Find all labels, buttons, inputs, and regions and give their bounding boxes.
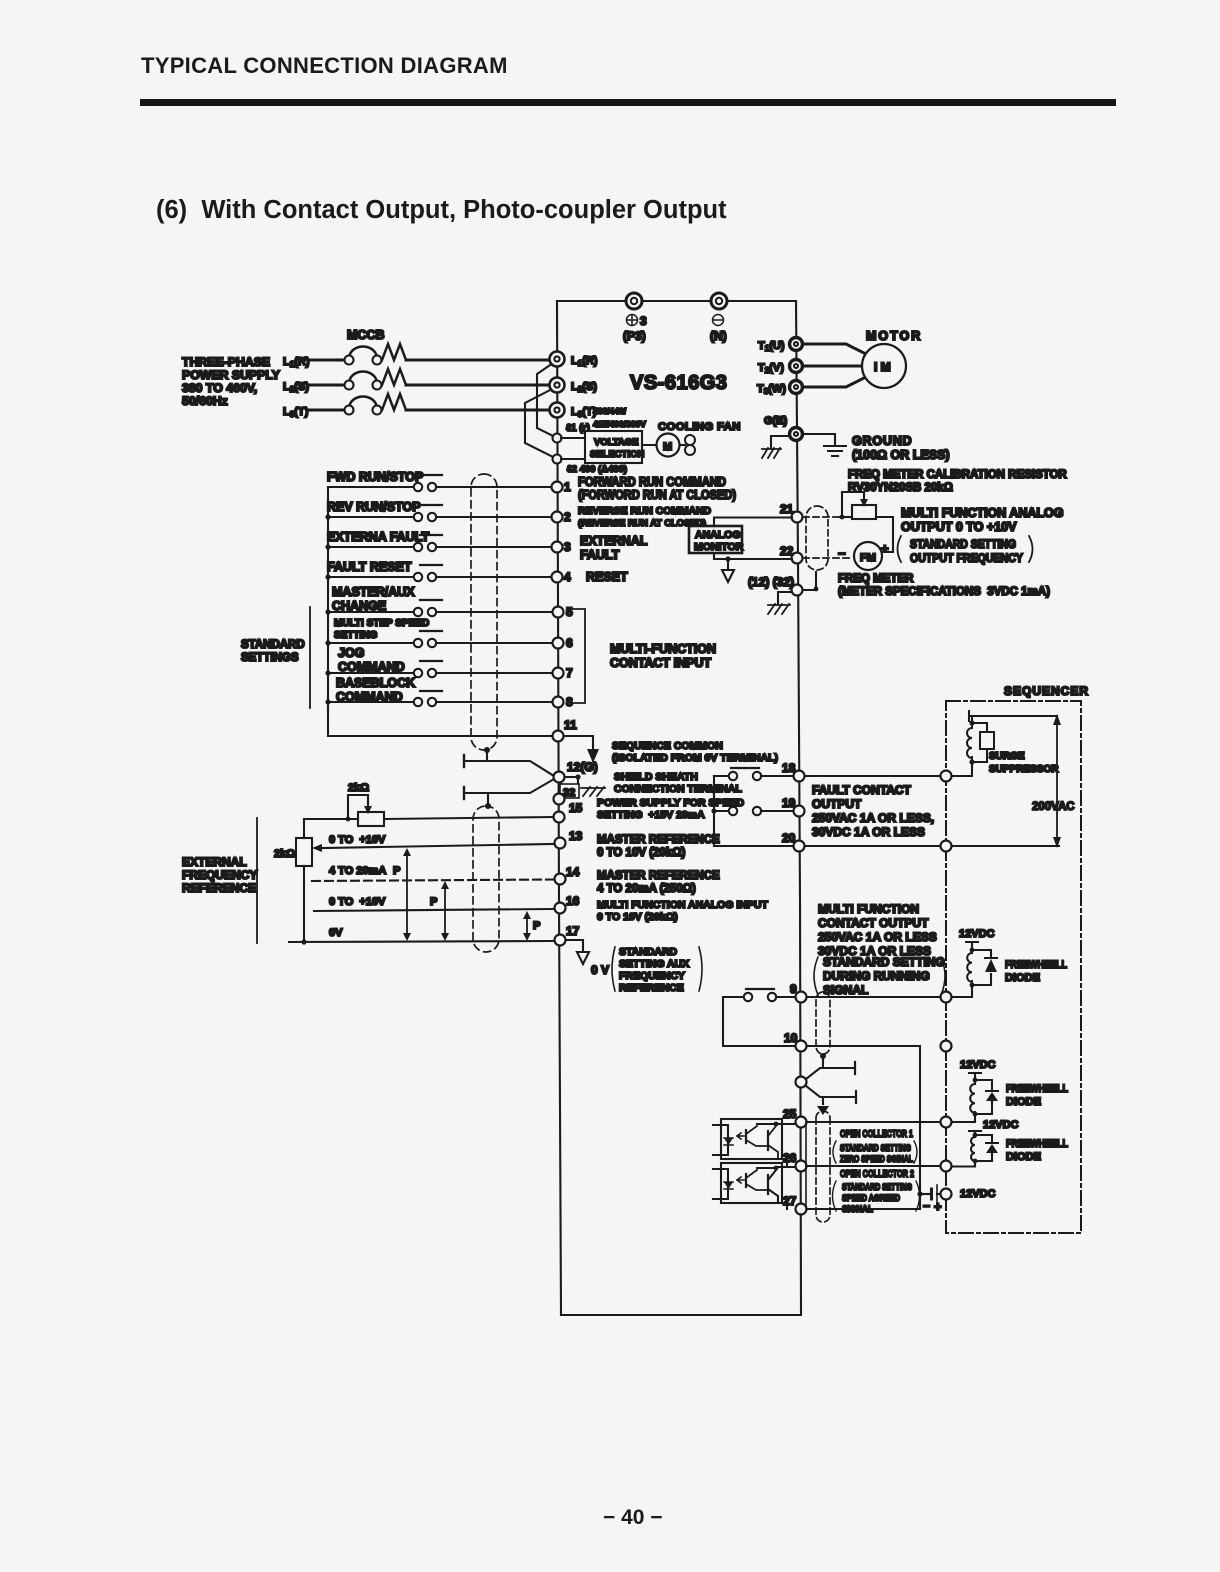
svg-text:COMMAND: COMMAND: [338, 660, 405, 674]
svg-text:2: 2: [564, 510, 571, 524]
svg-text:OUTPUT FREQUENCY: OUTPUT FREQUENCY: [910, 551, 1023, 565]
svg-text:415/400/380V: 415/400/380V: [593, 419, 646, 429]
svg-text:REFERENCE: REFERENCE: [619, 982, 684, 994]
terminal 17: [555, 924, 580, 946]
page number: [603, 1506, 663, 1530]
photocoupler PC2: [713, 1163, 794, 1209]
terminal 9: [790, 982, 807, 1003]
svg-text:DIODE: DIODE: [1006, 1151, 1041, 1163]
wire bus to terminal 11: [328, 735, 552, 737]
twisted pair arrow 14-17: [441, 881, 449, 941]
svg-text:VOLTAGE: VOLTAGE: [594, 437, 639, 448]
svg-text:MCCB: MCCB: [347, 328, 385, 342]
wire 20 to sequencer: [805, 845, 940, 847]
MULTI STEP SPEED contact row: [325, 618, 552, 647]
svg-text:2kΩ: 2kΩ: [274, 848, 295, 860]
terminal 32 boxed: [554, 784, 580, 805]
svg-text:16: 16: [566, 894, 580, 908]
svg-text:250VAC 1A OR LESS,: 250VAC 1A OR LESS,: [812, 811, 934, 825]
svg-text:POWER SUPPLY FOR SPEED: POWER SUPPLY FOR SPEED: [597, 797, 744, 809]
svg-text:SETTINGS: SETTINGS: [241, 652, 299, 664]
svg-text:FWD RUN/STOP: FWD RUN/STOP: [327, 470, 423, 484]
fault contact common vertical: [711, 776, 716, 846]
svg-text:EXTERNAL: EXTERNAL: [580, 534, 648, 548]
battery 12VDC: [917, 1185, 995, 1214]
wire L1 to terminal: [406, 359, 549, 362]
inverter enclosure left edge: [557, 301, 561, 1315]
svg-text:(N): (N): [710, 329, 727, 343]
terminal 15: [554, 801, 583, 823]
svg-text:T1(U): T1(U): [758, 340, 785, 353]
wire 20 into sequencer: [952, 845, 1059, 847]
wire 9 to sequencer: [807, 996, 940, 998]
svg-text:30VDC 1A OR LESS: 30VDC 1A OR LESS: [812, 825, 925, 839]
inverter enclosure top edge: [557, 300, 796, 302]
sequence common arrow: [564, 736, 599, 763]
svg-text:SELECTION: SELECTION: [590, 449, 645, 460]
svg-text:7: 7: [566, 666, 573, 680]
terminal 2: [552, 510, 572, 524]
transfer contact node: [796, 1077, 807, 1088]
svg-text:12VDC: 12VDC: [959, 928, 995, 940]
svg-text:(P3): (P3): [623, 329, 646, 343]
standard settings bracket: [309, 607, 311, 708]
svg-text:11: 11: [564, 718, 577, 732]
MASTER/AUX CHANGE contact row: [325, 585, 552, 616]
terminal 22: [780, 544, 803, 564]
inverter enclosure bottom edge: [561, 1314, 801, 1316]
svg-text:(FORWORD RUN AT CLOSED): (FORWORD RUN AT CLOSED): [578, 488, 736, 502]
svg-text:(REVERSE RUN AT CLOSED): (REVERSE RUN AT CLOSED): [578, 518, 706, 528]
relay coil unit 1: [952, 928, 997, 997]
svg-text:OPEN COLLECTOR 2: OPEN COLLECTOR 2: [840, 1168, 914, 1180]
signal common triangle under monitor: [722, 559, 734, 582]
svg-text:4 TO 20mA (250Ω): 4 TO 20mA (250Ω): [597, 883, 696, 895]
terminal 4: [552, 570, 572, 584]
link 12G to ground: [565, 774, 581, 792]
svg-text:I M: I M: [874, 360, 891, 374]
svg-text:13: 13: [569, 829, 583, 843]
breaker contact L1: [345, 346, 382, 364]
svg-text:SETTING AUX: SETTING AUX: [619, 958, 689, 970]
svg-text:FORWARD RUN COMMAND: FORWARD RUN COMMAND: [578, 475, 726, 489]
breaker contact L3: [345, 396, 382, 414]
svg-text:−: −: [838, 546, 846, 561]
wire L3 from supply: [309, 409, 344, 412]
freq meter calibration potentiometer: [840, 492, 876, 519]
svg-text:ZERO SPEED SGINAL: ZERO SPEED SGINAL: [840, 1154, 913, 1165]
svg-text:FREQUENCY: FREQUENCY: [619, 970, 685, 982]
terminal T3(W): [757, 381, 803, 397]
svg-text:0 TO 10V (20kΩ): 0 TO 10V (20kΩ): [597, 847, 685, 859]
section heading: [156, 196, 727, 225]
svg-text:FM: FM: [860, 552, 876, 564]
terminal 11: [553, 718, 578, 742]
svg-text:(12) (32): (12) (32): [748, 575, 794, 589]
wire L2 from supply: [309, 384, 344, 387]
svg-text:SEQUENCER: SEQUENCER: [1004, 684, 1089, 698]
overcurrent element L2: [382, 369, 406, 385]
transfer contact lower throw: [806, 1086, 856, 1104]
svg-text:0 TO 10V (20kΩ): 0 TO 10V (20kΩ): [597, 911, 678, 923]
terminal 21: [780, 502, 803, 523]
shield oval analog monitor: [806, 506, 828, 570]
master reference 0-10V row: [312, 834, 553, 852]
svg-text:20: 20: [782, 831, 796, 845]
svg-text:CONTACT INPUT: CONTACT INPUT: [610, 656, 712, 670]
voltage tap wire L2 to l2: [525, 387, 556, 458]
svg-text:STANDARD: STANDARD: [619, 946, 678, 958]
svg-text:9: 9: [790, 982, 797, 996]
svg-text:4: 4: [564, 570, 571, 584]
shield oval contact output: [816, 992, 830, 1054]
svg-text:SETTING +15V 20mA: SETTING +15V 20mA: [597, 809, 705, 821]
terminal 27: [783, 1194, 807, 1215]
svg-text:MULTI FUNCTION: MULTI FUNCTION: [818, 902, 919, 916]
svg-text:OUTPUT 0 TO +10V: OUTPUT 0 TO +10V: [901, 520, 1017, 534]
svg-text:(METER SPECIFICATIONS 3VDC 1m: (METER SPECIFICATIONS 3VDC 1mA): [838, 586, 1050, 598]
svg-text:THREE-PHASE: THREE-PHASE: [182, 355, 270, 369]
svg-text:380 TO 460V,: 380 TO 460V,: [182, 381, 257, 395]
terminal 26: [783, 1151, 807, 1172]
svg-text:RESET: RESET: [586, 570, 628, 584]
wire analog monitor to 22: [714, 553, 792, 562]
svg-text:FREQ METER: FREQ METER: [838, 573, 914, 585]
standard setting output frequency note: [898, 536, 1033, 565]
wire L1 from supply: [309, 359, 344, 362]
svg-text:GROUND: GROUND: [852, 434, 912, 448]
sequencer boundary box: [946, 701, 1081, 1233]
svg-text:−: −: [923, 1199, 930, 1213]
twisted pair arrow 16-17: [523, 911, 531, 941]
surge suppressor: [967, 720, 994, 764]
terminal 1: [552, 480, 572, 494]
wire node to surge suppressor: [952, 762, 972, 776]
open collector 2 box: [805, 1166, 807, 1209]
svg-text:JOG: JOG: [338, 646, 364, 660]
relay coil unit 2: [952, 1059, 998, 1122]
svg-text:1: 1: [564, 480, 571, 494]
voltage tap wire L1 to l1: [537, 361, 556, 437]
svg-text:FREEWHEELL: FREEWHEELL: [1005, 959, 1067, 971]
REV RUN/STOP contact row: [325, 500, 551, 521]
svg-text:L1(R): L1(R): [571, 355, 598, 368]
terminal 12(G): [554, 760, 598, 783]
svg-text:+: +: [934, 1199, 942, 1214]
svg-text:L2(S): L2(S): [283, 381, 309, 394]
shield drain dot contact output: [820, 1053, 826, 1059]
svg-text:8: 8: [566, 695, 573, 709]
open collector 2 label: [833, 1168, 920, 1215]
svg-text:MULTI-FUNCTION: MULTI-FUNCTION: [610, 642, 716, 656]
svg-text:M: M: [663, 441, 672, 453]
svg-text:460/440/: 460/440/: [593, 406, 627, 416]
svg-text:REVERSE RUN COMMAND: REVERSE RUN COMMAND: [578, 506, 711, 517]
terminal T1(U): [758, 338, 803, 354]
shield drain dot digital cable: [484, 747, 490, 761]
svg-text:50/60Hz: 50/60Hz: [182, 394, 228, 408]
wire 25 to sequencer: [807, 1121, 940, 1123]
FAULT RESET contact row: [325, 560, 551, 581]
svg-text:MASTER/AUX: MASTER/AUX: [332, 585, 415, 599]
terminal L2(S): [550, 378, 598, 395]
wire contact to 10: [723, 997, 795, 1046]
terminal T2(V): [758, 360, 803, 376]
svg-text:5: 5: [566, 605, 573, 619]
terminal 20: [782, 831, 805, 852]
svg-text:21: 21: [780, 502, 794, 516]
breaker contact L2: [345, 371, 382, 389]
terminal 6: [553, 636, 574, 650]
node sequencer 18: [941, 771, 952, 782]
svg-text:3: 3: [640, 314, 647, 328]
speed setting potentiometer 2k: [346, 795, 384, 826]
svg-text:REV RUN/STOP: REV RUN/STOP: [327, 500, 421, 514]
svg-text:SIGNAL: SIGNAL: [842, 1204, 873, 1215]
svg-text:OPEN COLLECTOR 1: OPEN COLLECTOR 1: [840, 1128, 913, 1140]
ground earth right of G(E): [802, 434, 846, 456]
wire L2 to terminal: [406, 384, 549, 387]
shield oval open collector: [816, 1111, 830, 1222]
svg-text:SUPPRESSOR: SUPPRESSOR: [989, 764, 1059, 775]
svg-text:P: P: [393, 865, 400, 877]
standard setting during running note: [814, 955, 945, 997]
svg-text:SURGE: SURGE: [989, 751, 1025, 762]
terminal 16: [555, 894, 580, 914]
svg-text:SHIELD SHEATH: SHIELD SHEATH: [614, 771, 698, 783]
svg-text:FREQUENCY: FREQUENCY: [182, 868, 257, 882]
svg-text:25: 25: [783, 1107, 797, 1121]
svg-text:P: P: [430, 896, 437, 908]
shield arrow contact output 2: [817, 1106, 829, 1115]
svg-text:FREEWHEELL: FREEWHEELL: [1006, 1083, 1068, 1095]
terminal L3(T): [550, 403, 597, 420]
wire terminal 22 to FM: [803, 557, 853, 559]
svg-text:12VDC: 12VDC: [960, 1188, 996, 1200]
EXTERNAL FAULT contact row: [325, 530, 551, 551]
svg-text:T2(V): T2(V): [758, 362, 784, 375]
svg-text:MULTI FUNCTION ANALOG: MULTI FUNCTION ANALOG: [901, 506, 1063, 520]
node sequencer 10: [941, 1041, 952, 1052]
ground at (12)(32): [768, 592, 792, 614]
svg-text:3: 3: [564, 540, 571, 554]
svg-text:(ISOLATED FROM 0V TERMINAL): (ISOLATED FROM 0V TERMINAL): [612, 752, 778, 764]
svg-text:STANDARD SETTING: STANDARD SETTING: [823, 955, 945, 969]
svg-text:FREEWHEELL: FREEWHEELL: [1006, 1138, 1068, 1150]
motor IM: [862, 344, 906, 388]
svg-text:L2(S): L2(S): [571, 381, 597, 394]
svg-text:STANDARD SETTING: STANDARD SETTING: [840, 1143, 911, 1154]
svg-text:MONITOR: MONITOR: [694, 541, 744, 553]
page title: [141, 53, 508, 79]
node sequencer 20: [941, 841, 952, 852]
0V row: [289, 920, 553, 945]
shield cable oval digital inputs: [471, 474, 497, 750]
node sequencer 26: [941, 1161, 952, 1172]
shield bar upper: [464, 755, 554, 776]
wire T3 to motor: [802, 377, 866, 387]
svg-text:0V: 0V: [329, 927, 343, 939]
wire T1 to motor: [802, 344, 866, 354]
ground at G(E) left: [762, 436, 790, 458]
wire l2 to voltage selection: [561, 458, 585, 460]
overcurrent element L3: [382, 394, 406, 410]
svg-text:STANDARD SETTING: STANDARD SETTING: [910, 537, 1016, 551]
svg-text:FREQ METER CALIBRATION RESISTO: FREQ METER CALIBRATION RESISTOR: [848, 469, 1067, 481]
node l1 (r) tap: [553, 423, 590, 443]
shield drain dot analog cable: [485, 793, 491, 809]
standard setting aux frequency reference note: [612, 946, 702, 994]
terminal 5: [553, 605, 574, 619]
svg-text:2kΩ: 2kΩ: [348, 782, 369, 794]
terminal 14: [555, 865, 580, 885]
wire T2 to motor: [802, 365, 862, 368]
open collector 1 box: [806, 1122, 920, 1166]
svg-text:FAULT RESET: FAULT RESET: [327, 560, 412, 574]
svg-text:SETTING: SETTING: [334, 630, 378, 641]
contact input bus wire: [327, 487, 329, 736]
terminal N: [710, 293, 727, 343]
terminal 10: [784, 1031, 807, 1052]
shield stub to (12)(32): [803, 572, 818, 591]
svg-text:STANDARD SETTING: STANDARD SETTING: [842, 1182, 912, 1193]
svg-text:POWER SUPPLY: POWER SUPPLY: [182, 368, 280, 382]
running signal contact: [723, 989, 795, 1001]
fault NO contact to 19: [714, 807, 793, 815]
svg-text:MOTOR: MOTOR: [866, 329, 922, 343]
overcurrent element L1: [382, 344, 406, 360]
svg-text:G(E): G(E): [764, 415, 788, 427]
wire l1 to voltage selection: [561, 437, 585, 439]
svg-text:ANALOG: ANALOG: [695, 529, 741, 541]
svg-text:EXTERNA FAULT: EXTERNA FAULT: [327, 530, 429, 544]
svg-text:MULTI STEP SPEED: MULTI STEP SPEED: [334, 618, 429, 629]
node sequencer 9: [941, 992, 952, 1003]
svg-text:P: P: [533, 920, 540, 932]
svg-text:T3(W): T3(W): [757, 383, 786, 396]
svg-text:(100Ω OR LESS): (100Ω OR LESS): [852, 448, 950, 462]
svg-text:18: 18: [782, 761, 796, 775]
terminal 19: [782, 796, 805, 817]
svg-text:+: +: [881, 541, 889, 556]
svg-text:17: 17: [566, 924, 580, 938]
svg-text:19: 19: [782, 796, 796, 810]
wire terminal 21 to calibration pot: [803, 516, 840, 518]
svg-text:CONTACT OUTPUT: CONTACT OUTPUT: [818, 916, 929, 930]
terminal 7: [553, 666, 574, 680]
open collector 1 label: [833, 1128, 917, 1165]
terminal 25: [783, 1107, 807, 1128]
svg-text:26: 26: [783, 1151, 797, 1165]
wire analog monitor to 21: [714, 518, 792, 527]
terminal 18: [782, 761, 805, 782]
wire 10 down open collector common: [807, 1046, 920, 1208]
ground at shield terminal: [581, 787, 605, 796]
200VAC dimension arrow: [1032, 714, 1075, 848]
surge suppressor top bar: [969, 711, 1057, 723]
svg-text:DIODE: DIODE: [1005, 972, 1040, 984]
svg-text:0 TO +10V: 0 TO +10V: [329, 834, 386, 846]
svg-text:FAULT CONTACT: FAULT CONTACT: [812, 783, 912, 797]
svg-text:MASTER REFERENCE: MASTER REFERENCE: [597, 834, 720, 846]
terminal G(E): [764, 415, 803, 441]
inverter enclosure right edge: [796, 301, 801, 1315]
svg-text:STANDARD: STANDARD: [241, 639, 305, 651]
node l2 400 tap: [553, 455, 628, 476]
cooling fan motor M: [642, 434, 680, 457]
wire 18 to sequencer: [805, 775, 940, 777]
analog monitor box: [689, 526, 744, 553]
svg-text:MASTER REFERENCE: MASTER REFERENCE: [597, 870, 720, 882]
svg-text:10: 10: [784, 1031, 798, 1045]
terminal L1(R): [550, 352, 598, 369]
wire pot left: [304, 818, 358, 820]
svg-text:250VAC 1A OR LESS: 250VAC 1A OR LESS: [818, 930, 937, 944]
title rule: [140, 99, 1116, 106]
svg-text:6: 6: [566, 636, 573, 650]
svg-text:15: 15: [569, 801, 583, 815]
svg-text:12(G): 12(G): [567, 760, 598, 774]
svg-text:SIGNAL: SIGNAL: [823, 983, 868, 997]
svg-text:L3(T): L3(T): [283, 406, 309, 419]
wire pot to terminal 15: [384, 817, 553, 819]
relay coil unit 3: [952, 1119, 1019, 1167]
svg-text:DIODE: DIODE: [1006, 1096, 1041, 1108]
shield cable oval analog inputs: [473, 806, 499, 952]
master reference 4-20mA row: [312, 865, 553, 881]
svg-text:DURING RUNNING: DURING RUNNING: [823, 969, 930, 983]
svg-text:REFERENCE: REFERENCE: [182, 881, 256, 895]
svg-text:FAULT: FAULT: [580, 548, 620, 562]
svg-text:12VDC: 12VDC: [960, 1059, 996, 1071]
svg-text:L1(R): L1(R): [283, 356, 310, 369]
wire L3 to terminal: [406, 409, 549, 412]
voltage selection box: [585, 431, 645, 463]
transfer contact upper throw: [806, 1057, 855, 1079]
node sequencer battery: [941, 1189, 952, 1200]
terminal 8: [553, 695, 574, 709]
svg-text:12VDC: 12VDC: [983, 1119, 1019, 1131]
BASEBLOCK COMMAND contact row: [325, 676, 552, 706]
svg-text:VS-616G3: VS-616G3: [630, 372, 727, 394]
terminal 13: [555, 829, 583, 849]
svg-text:27: 27: [783, 1194, 797, 1208]
freq reference potentiometer vertical: [296, 819, 312, 942]
svg-text:CHANGE: CHANGE: [332, 599, 386, 613]
fault NC contact to 18: [714, 768, 793, 780]
svg-text:OUTPUT: OUTPUT: [812, 797, 862, 811]
wire common to 20: [714, 845, 793, 847]
svg-text:4 TO 20mA: 4 TO 20mA: [329, 865, 386, 877]
shield bar lower: [464, 779, 554, 799]
wire 27: [807, 1208, 920, 1210]
FWD RUN/STOP contact row: [327, 470, 551, 491]
fan symbol: [681, 435, 695, 455]
node sequencer 25: [941, 1117, 952, 1128]
svg-text:COOLING FAN: COOLING FAN: [658, 421, 741, 433]
svg-text:SPEED AGREED: SPEED AGREED: [842, 1193, 900, 1204]
JOG COMMAND contact row: [325, 646, 552, 677]
terminal 3: [552, 540, 572, 554]
svg-text:BASEBLOCK: BASEBLOCK: [336, 676, 415, 690]
wire 26 to sequencer: [807, 1165, 940, 1167]
svg-text:EXTERNAL: EXTERNAL: [182, 855, 247, 869]
svg-text:200VAC: 200VAC: [1032, 801, 1075, 813]
terminal (12)(32): [748, 575, 803, 596]
multi-function contact input bracket: [572, 609, 585, 703]
svg-text:14: 14: [566, 865, 580, 879]
twisted pair arrow 13-17: [403, 848, 411, 941]
